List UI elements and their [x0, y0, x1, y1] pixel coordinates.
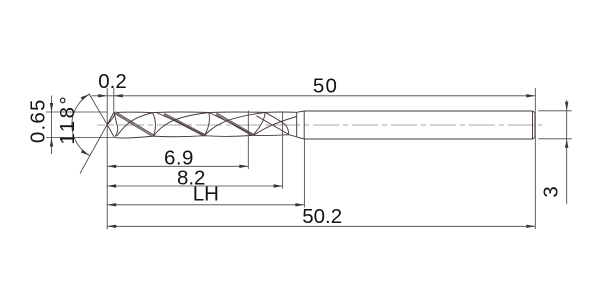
neck cone top [297, 111, 305, 112]
angle dimension arc 118 [72, 94, 90, 155]
flute margin band 1 [115, 113, 153, 136]
drill point chisel facet [114, 113, 118, 136]
extension line 8.2 right [282, 112, 284, 188]
shank end edge line [532, 111, 534, 139]
dimension line 0.65 [51, 96, 53, 155]
label 8.2 [177, 166, 206, 189]
flute helix ascending curve 4 [254, 117, 297, 136]
flute back edge connector 3 [253, 113, 265, 136]
arrow 0.2 left [98, 94, 107, 97]
extension line through tip (vertical) [106, 88, 108, 229]
flute helix descending curve 3 [265, 112, 288, 134]
drill bottom silhouette [114, 135, 296, 138]
drill point top lip [107, 112, 114, 124]
extension line 0.65 top [46, 111, 107, 113]
drill point bottom lip [107, 125, 114, 138]
arrow 0.65 bottom [50, 138, 53, 147]
svg-text:50.2: 50.2 [302, 205, 342, 228]
flute helix ascending curve 3 [205, 113, 265, 136]
label 6.9 [164, 146, 194, 169]
arrow 3 bottom [565, 139, 568, 148]
arrow arc bottom [81, 150, 90, 156]
arrow 6.9 right [239, 165, 248, 168]
shank left end face [303, 111, 305, 139]
dimension line 50.2 [107, 225, 535, 227]
extension line at point corner (vertical) [113, 88, 115, 112]
arrow 0.2 right / 50 left [114, 94, 123, 97]
arrow LH right [295, 203, 304, 206]
arrow arc top [81, 94, 90, 100]
label 50.2 [302, 205, 342, 228]
flute runout edge [257, 116, 289, 135]
shank outline [304, 111, 535, 139]
dimension line 0.2 and 50 [92, 95, 536, 97]
svg-text:118°: 118° [56, 94, 79, 145]
arrow 50.2 left [107, 225, 116, 228]
extension line at 50 right end [534, 88, 536, 229]
flute back edge connector 2 [205, 113, 210, 136]
flute helix descending curve 2 [209, 113, 253, 135]
arrow LH left [107, 203, 116, 206]
label 118deg [56, 94, 79, 145]
extension line LH right [303, 139, 305, 207]
extension line 6.9 right [247, 111, 249, 170]
flute back edge connector 1 [152, 113, 155, 136]
flute helix ascending curve 2 [154, 113, 209, 136]
drill top silhouette [114, 111, 297, 114]
label 0.65 [26, 98, 49, 143]
arrow 50.2 right [526, 225, 535, 228]
flute margin band 2 [164, 114, 204, 135]
dimension line 6.9 [107, 165, 248, 167]
svg-text:3: 3 [540, 186, 563, 197]
flute helix descending curve 1 [156, 113, 204, 136]
extension line 3 bottom [538, 138, 571, 140]
arrow 6.9 left [107, 165, 116, 168]
svg-text:0.65: 0.65 [26, 98, 49, 143]
label 3 [540, 186, 563, 197]
arrow 8.2 right [274, 184, 283, 187]
dimension line 8.2 [107, 185, 282, 187]
point angle line upper [89, 93, 108, 124]
flute helix ascending curve 1 [117, 113, 153, 136]
arrow 0.65 top [50, 103, 53, 112]
extension line 0.65 bottom [46, 137, 114, 139]
arrow 50 right [526, 94, 535, 97]
label LH [193, 183, 219, 206]
arrow 8.2 left [107, 184, 116, 187]
svg-text:LH: LH [193, 183, 219, 206]
svg-text:0.2: 0.2 [98, 70, 127, 93]
dimension line 3 [566, 100, 568, 204]
body end face [296, 112, 298, 137]
dimension line LH [107, 204, 304, 206]
svg-text:50: 50 [313, 75, 338, 98]
neck cone bottom [297, 137, 305, 139]
center axis line [97, 124, 543, 126]
label 50 [313, 75, 338, 98]
flute margin band 3 [216, 114, 253, 135]
arrow 3 top [565, 102, 568, 111]
point angle line lower [80, 113, 114, 174]
drill point flank curve [107, 113, 115, 124]
extension line 3 top [538, 110, 571, 112]
label 0.2 [98, 70, 127, 93]
